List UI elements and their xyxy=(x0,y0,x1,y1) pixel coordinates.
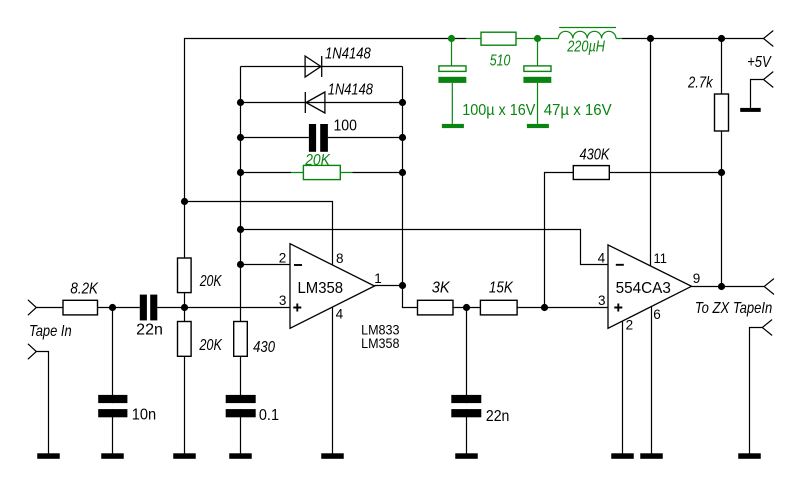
svg-text:To ZX TapeIn: To ZX TapeIn xyxy=(695,300,772,317)
svg-text:4: 4 xyxy=(336,307,344,322)
svg-text:22n: 22n xyxy=(136,322,163,339)
svg-text:100µ x 16V: 100µ x 16V xyxy=(462,102,536,119)
svg-text:1N4148: 1N4148 xyxy=(325,46,371,63)
svg-text:+5V: +5V xyxy=(747,54,772,71)
svg-text:430K: 430K xyxy=(580,146,611,163)
svg-text:20K: 20K xyxy=(304,152,330,169)
svg-text:3: 3 xyxy=(598,293,606,308)
svg-text:2: 2 xyxy=(626,318,634,333)
svg-text:1: 1 xyxy=(374,271,382,286)
svg-text:430: 430 xyxy=(253,339,275,356)
svg-text:510: 510 xyxy=(490,53,511,70)
svg-text:47µ x 16V: 47µ x 16V xyxy=(544,102,613,119)
svg-text:100: 100 xyxy=(334,117,357,134)
svg-text:9: 9 xyxy=(693,271,701,286)
svg-text:4: 4 xyxy=(598,251,606,266)
svg-text:3K: 3K xyxy=(432,280,451,297)
svg-text:LM358: LM358 xyxy=(361,335,400,351)
svg-text:20K: 20K xyxy=(199,337,223,354)
svg-text:3: 3 xyxy=(279,293,287,308)
svg-text:15K: 15K xyxy=(489,280,514,297)
svg-text:2: 2 xyxy=(279,251,287,266)
svg-text:11: 11 xyxy=(654,251,667,266)
svg-text:10n: 10n xyxy=(132,407,157,424)
svg-text:8.2K: 8.2K xyxy=(70,280,99,297)
svg-text:LM358: LM358 xyxy=(298,280,344,297)
svg-text:0.1: 0.1 xyxy=(259,407,279,424)
svg-text:Tape In: Tape In xyxy=(29,323,72,340)
svg-text:1N4148: 1N4148 xyxy=(328,82,373,99)
svg-text:20K: 20K xyxy=(199,273,223,290)
svg-text:2.7k: 2.7k xyxy=(687,75,713,92)
svg-text:220µH: 220µH xyxy=(566,38,605,55)
svg-text:6: 6 xyxy=(653,307,661,322)
svg-text:22n: 22n xyxy=(486,408,510,425)
svg-text:8: 8 xyxy=(336,251,344,266)
svg-text:554CA3: 554CA3 xyxy=(616,280,671,297)
